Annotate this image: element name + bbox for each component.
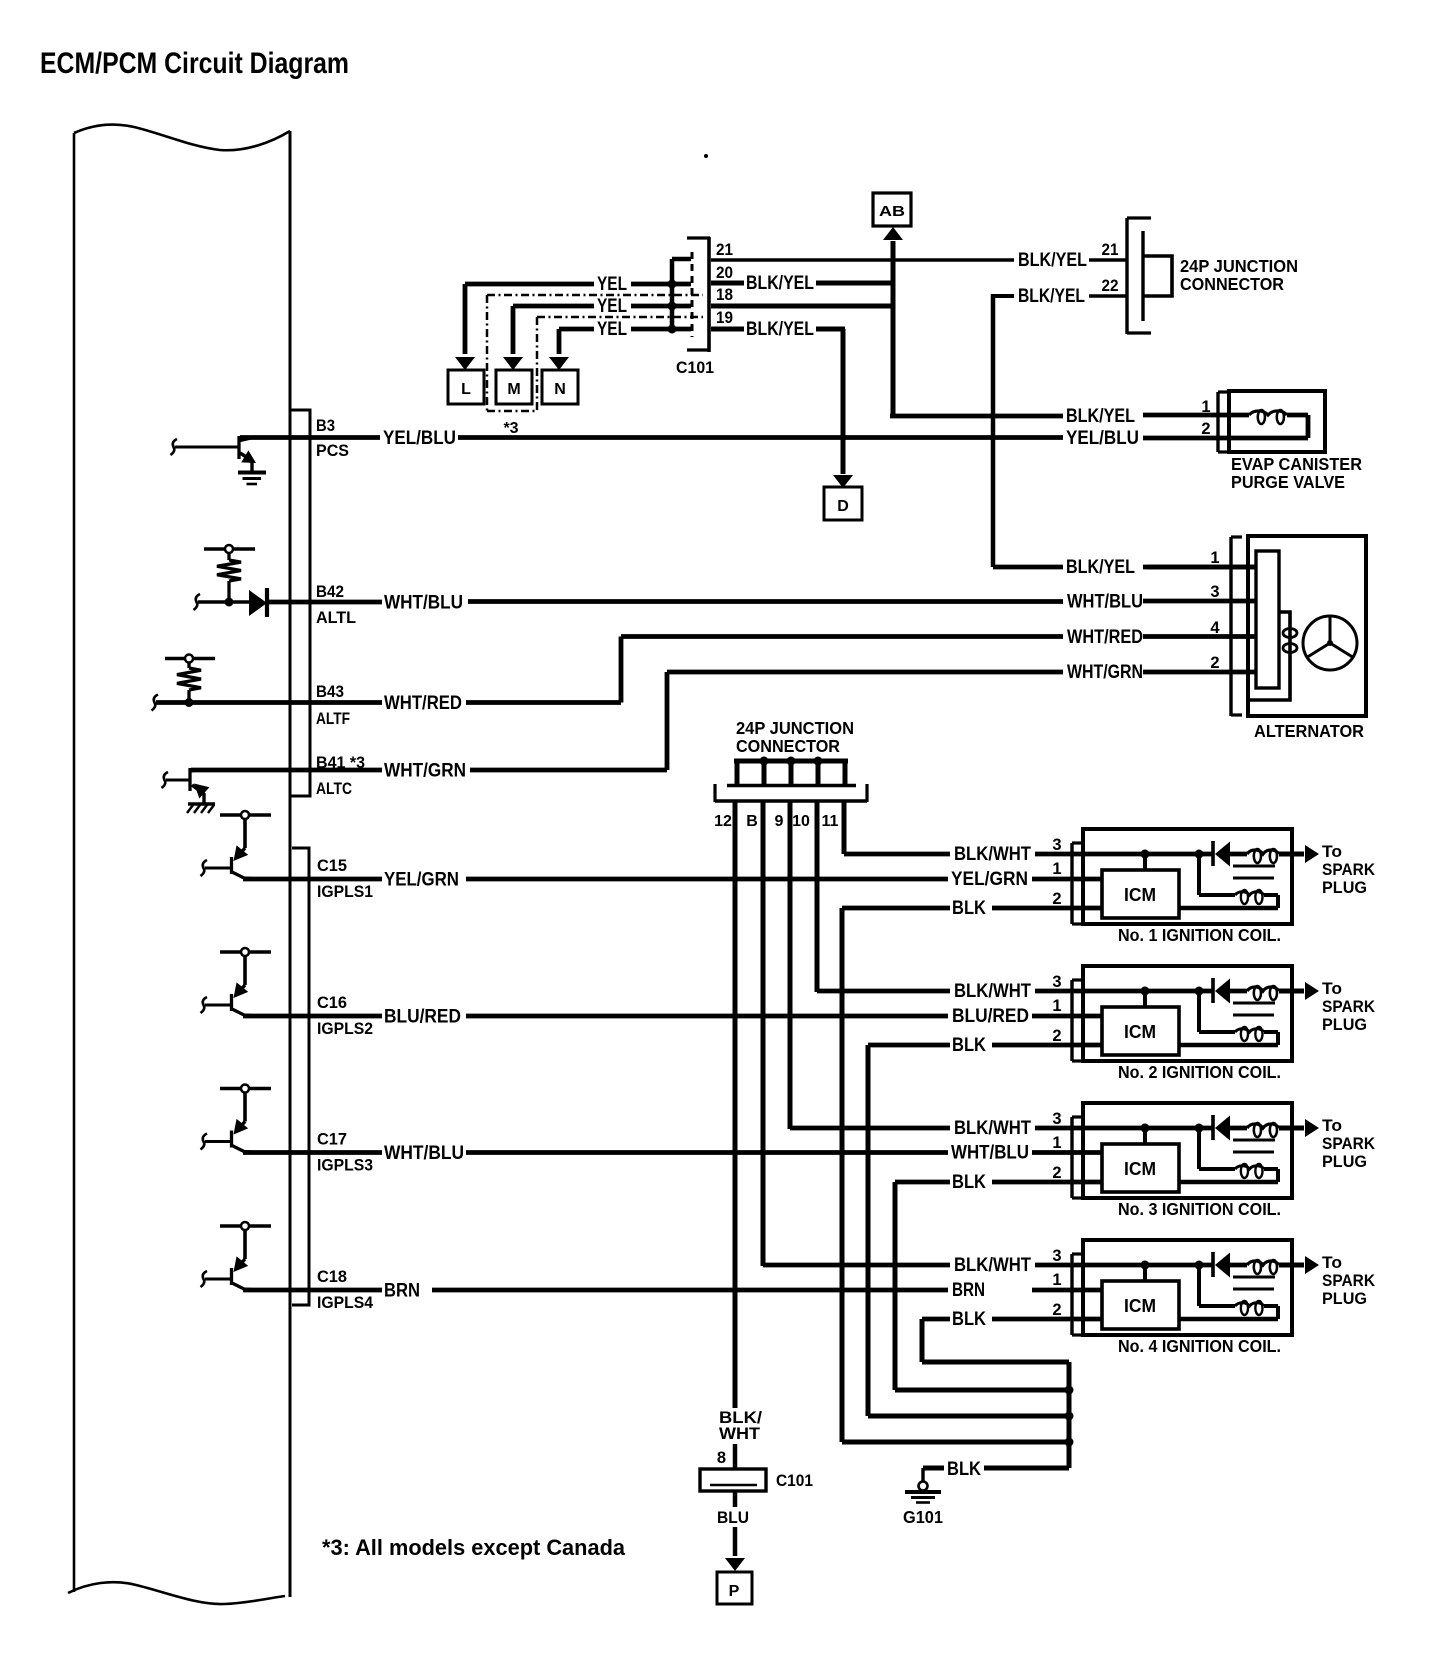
svg-text:BLK/YEL: BLK/YEL	[1018, 249, 1087, 271]
svg-text:22: 22	[1102, 277, 1119, 295]
svg-text:BLK/YEL: BLK/YEL	[746, 318, 814, 340]
svg-text:ALTC: ALTC	[316, 779, 352, 798]
svg-text:2: 2	[1052, 890, 1061, 908]
svg-text:No. 2 IGNITION COIL.: No. 2 IGNITION COIL.	[1118, 1062, 1281, 1082]
svg-text:12: 12	[714, 813, 732, 830]
svg-text:C16: C16	[317, 993, 347, 1012]
svg-text:WHT/BLU: WHT/BLU	[384, 592, 463, 614]
svg-text:24P JUNCTION: 24P JUNCTION	[1180, 256, 1298, 276]
svg-text:YEL/BLU: YEL/BLU	[383, 427, 456, 449]
svg-text:To: To	[1322, 1253, 1342, 1272]
svg-text:YEL: YEL	[597, 273, 627, 295]
svg-text:IGPLS4: IGPLS4	[317, 1293, 373, 1312]
svg-text:18: 18	[716, 286, 733, 304]
svg-text:To: To	[1322, 1116, 1342, 1135]
svg-text:IGPLS1: IGPLS1	[317, 882, 373, 901]
svg-text:ALTERNATOR: ALTERNATOR	[1254, 721, 1364, 741]
svg-text:D: D	[837, 498, 849, 515]
svg-text:PURGE VALVE: PURGE VALVE	[1231, 472, 1345, 492]
svg-text:PLUG: PLUG	[1322, 1015, 1367, 1034]
svg-text:21: 21	[716, 241, 733, 259]
svg-text:19: 19	[716, 309, 733, 327]
svg-text:2: 2	[1052, 1164, 1061, 1182]
svg-text:ICM: ICM	[1124, 1159, 1156, 1179]
svg-text:BLK: BLK	[952, 1308, 986, 1330]
svg-text:21: 21	[1102, 241, 1119, 259]
svg-text:ECM/PCM Circuit Diagram: ECM/PCM Circuit Diagram	[40, 47, 349, 80]
svg-text:1: 1	[1210, 549, 1219, 567]
svg-text:ICM: ICM	[1124, 1022, 1156, 1042]
svg-text:3: 3	[1052, 973, 1061, 991]
svg-text:24P JUNCTION: 24P JUNCTION	[736, 718, 854, 738]
svg-text:3: 3	[1052, 836, 1061, 854]
svg-text:To: To	[1322, 979, 1342, 998]
svg-text:CONNECTOR: CONNECTOR	[1180, 274, 1284, 294]
svg-text:1: 1	[1052, 1271, 1061, 1289]
svg-text:BLU/RED: BLU/RED	[384, 1006, 461, 1028]
svg-text:ALTL: ALTL	[316, 608, 356, 627]
svg-text:No. 3 IGNITION COIL.: No. 3 IGNITION COIL.	[1118, 1199, 1281, 1219]
svg-text:YEL/BLU: YEL/BLU	[1066, 427, 1139, 449]
svg-text:C17: C17	[317, 1130, 347, 1149]
svg-text:To: To	[1322, 842, 1342, 861]
svg-text:ICM: ICM	[1124, 1296, 1156, 1316]
svg-text:IGPLS2: IGPLS2	[317, 1019, 373, 1038]
svg-text:No. 1 IGNITION COIL.: No. 1 IGNITION COIL.	[1118, 925, 1281, 945]
svg-text:WHT: WHT	[719, 1425, 760, 1443]
svg-text:WHT/BLU: WHT/BLU	[1067, 591, 1143, 613]
svg-text:BLK/WHT: BLK/WHT	[954, 843, 1031, 865]
svg-text:B43: B43	[316, 682, 344, 701]
svg-text:YEL/GRN: YEL/GRN	[384, 869, 459, 891]
svg-text:SPARK: SPARK	[1322, 1134, 1376, 1153]
svg-text:BLK/WHT: BLK/WHT	[954, 1254, 1031, 1276]
svg-text:*3: All models except Canada: *3: All models except Canada	[322, 1535, 626, 1560]
svg-text:C15: C15	[317, 856, 347, 875]
svg-text:2: 2	[1201, 420, 1210, 438]
svg-text:P: P	[729, 1583, 740, 1600]
svg-text:M: M	[507, 381, 520, 398]
svg-text:BRN: BRN	[952, 1279, 985, 1301]
svg-text:C101: C101	[676, 358, 714, 377]
svg-text:PLUG: PLUG	[1322, 878, 1367, 897]
svg-text:C101: C101	[776, 1471, 813, 1490]
svg-text:B: B	[746, 813, 758, 830]
svg-text:1: 1	[1052, 1134, 1061, 1152]
svg-text:YEL/GRN: YEL/GRN	[951, 868, 1028, 890]
svg-text:1: 1	[1201, 398, 1210, 416]
svg-text:ALTF: ALTF	[316, 709, 350, 728]
svg-text:2: 2	[1210, 654, 1219, 672]
svg-text:2: 2	[1052, 1027, 1061, 1045]
svg-text:BLU/RED: BLU/RED	[952, 1005, 1029, 1027]
svg-text:BLK/YEL: BLK/YEL	[1018, 285, 1085, 307]
svg-text:8: 8	[717, 1449, 726, 1467]
svg-text:WHT/GRN: WHT/GRN	[1067, 661, 1143, 683]
svg-text:3: 3	[1052, 1247, 1061, 1265]
svg-text:IGPLS3: IGPLS3	[317, 1156, 373, 1175]
svg-text:4: 4	[1210, 619, 1220, 637]
svg-text:G101: G101	[903, 1507, 943, 1527]
svg-text:C18: C18	[317, 1267, 347, 1286]
svg-text:BLK/YEL: BLK/YEL	[1066, 405, 1135, 427]
svg-text:PCS: PCS	[316, 441, 349, 460]
svg-text:10: 10	[792, 813, 810, 830]
svg-text:B3: B3	[316, 416, 335, 435]
svg-text:BLK: BLK	[952, 1034, 986, 1056]
svg-text:11: 11	[822, 813, 839, 830]
svg-text:B42: B42	[316, 582, 344, 601]
svg-text:PLUG: PLUG	[1322, 1289, 1367, 1308]
svg-text:SPARK: SPARK	[1322, 997, 1376, 1016]
svg-text:SPARK: SPARK	[1322, 1271, 1376, 1290]
svg-text:No. 4 IGNITION COIL.: No. 4 IGNITION COIL.	[1118, 1336, 1281, 1356]
svg-text:PLUG: PLUG	[1322, 1152, 1367, 1171]
svg-text:WHT/BLU: WHT/BLU	[384, 1142, 464, 1164]
svg-text:BLK/WHT: BLK/WHT	[954, 1117, 1031, 1139]
svg-text:20: 20	[716, 264, 733, 282]
svg-text:BLK/WHT: BLK/WHT	[954, 980, 1031, 1002]
svg-text:WHT/BLU: WHT/BLU	[951, 1142, 1029, 1164]
svg-text:1: 1	[1052, 997, 1061, 1015]
svg-text:AB: AB	[879, 203, 905, 220]
svg-text:YEL: YEL	[597, 318, 627, 340]
svg-text:WHT/GRN: WHT/GRN	[384, 760, 466, 782]
svg-text:ICM: ICM	[1124, 885, 1156, 905]
svg-text:BLU: BLU	[717, 1509, 749, 1527]
svg-text:BLK/YEL: BLK/YEL	[746, 272, 814, 294]
svg-text:1: 1	[1052, 860, 1061, 878]
svg-text:BLK/YEL: BLK/YEL	[1066, 556, 1135, 578]
svg-text:3: 3	[1052, 1110, 1061, 1128]
svg-text:WHT/RED: WHT/RED	[1067, 626, 1143, 648]
svg-text:2: 2	[1052, 1301, 1061, 1319]
svg-text:3: 3	[1210, 583, 1219, 601]
svg-text:BLK: BLK	[952, 897, 986, 919]
svg-text:N: N	[554, 381, 566, 398]
svg-text:*3: *3	[503, 420, 518, 437]
svg-text:L: L	[461, 381, 471, 398]
svg-text:BLK: BLK	[952, 1171, 986, 1193]
svg-text:YEL: YEL	[597, 295, 627, 317]
svg-text:BRN: BRN	[384, 1280, 420, 1302]
svg-text:WHT/RED: WHT/RED	[384, 692, 462, 714]
svg-text:SPARK: SPARK	[1322, 860, 1376, 879]
svg-text:BLK: BLK	[947, 1458, 981, 1480]
svg-text:9: 9	[775, 813, 784, 830]
svg-text:EVAP CANISTER: EVAP CANISTER	[1231, 454, 1362, 474]
svg-text:CONNECTOR: CONNECTOR	[736, 736, 840, 756]
